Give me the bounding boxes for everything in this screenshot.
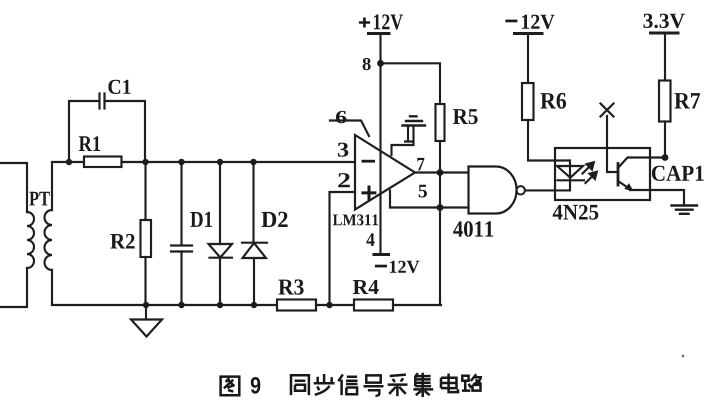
junction node 8 on +12V stem: [377, 60, 384, 67]
junction node pin7 output: [437, 169, 444, 176]
power label -12V right digits: [522, 15, 555, 30]
resistor R6: [522, 83, 534, 120]
transistor base bar: [617, 164, 620, 186]
balance symbol bars: [403, 116, 426, 125]
wire secondary bottom to ground rail: [52, 270, 277, 305]
power label 3.3V: [644, 14, 685, 29]
optocoupler 4N25 box: [555, 148, 650, 200]
pin number 8: [363, 58, 371, 70]
scan artifact dot: [682, 355, 685, 358]
caption char cai: [388, 375, 408, 397]
resistor R5: [436, 104, 445, 141]
caption char tong: [291, 375, 309, 395]
wire R5 bottom to output node and down to R4: [439, 141, 441, 305]
caption char bu: [314, 374, 335, 395]
label 4N25: [553, 205, 599, 220]
wire base stem from X to transistor base: [607, 116, 618, 172]
nand gate output bubble: [517, 186, 525, 194]
transistor emitter line: [618, 181, 631, 190]
resistor R4: [354, 300, 393, 311]
optocoupler LED emission arrow 1: [583, 162, 594, 173]
diode D2 cathode bar: [242, 242, 267, 244]
junction node C1 right / R2 top: [142, 159, 148, 165]
junction node C1 left on rail: [66, 159, 72, 165]
power label -12V pin4 minus sign: [375, 265, 387, 268]
resistor R7: [659, 81, 671, 122]
resistor R1: [84, 157, 122, 168]
transformer PT primary winding: [27, 212, 34, 268]
label C1: [108, 80, 130, 94]
optocoupler LED emission arrow 2: [586, 172, 597, 183]
junction node ground rail at D2: [251, 302, 257, 308]
diode D2 top lead: [252, 162, 254, 243]
pin6 stub wire: [330, 121, 369, 137]
wire 3.3V stem to R7: [664, 35, 666, 81]
ground (signal) stub: [145, 305, 147, 320]
wire emitter to ground: [630, 190, 684, 205]
earth ground bars: [672, 206, 698, 214]
pin number 2: [338, 173, 350, 187]
wire R6 bottom into optocoupler LED anode: [528, 120, 570, 166]
pin number 6: [336, 111, 346, 123]
caption char hao: [364, 375, 384, 395]
caption char tu (figure): [221, 377, 240, 396]
power label +12V plus sign: [359, 18, 370, 28]
label CAP1: [652, 166, 704, 181]
transformer PT secondary winding: [45, 210, 52, 270]
wire gate output to optocoupler LED cathode: [525, 189, 570, 191]
power +12V bar: [369, 32, 390, 35]
label 4011: [453, 221, 493, 237]
base no-connect X mark: [601, 104, 614, 117]
optocoupler LED axis lead: [569, 166, 571, 190]
diode D2 triangle: [243, 243, 267, 258]
op-amp minus input sign: [362, 160, 376, 163]
power label +12V digits: [374, 14, 403, 29]
pin number 5: [419, 185, 427, 198]
pin number 7: [417, 158, 424, 171]
capacitor C bottom lead: [180, 252, 182, 306]
wire R2 top lead: [144, 162, 146, 220]
power 3.3V bar: [651, 32, 679, 35]
wire -12V stem to R6: [527, 35, 529, 83]
junction node pin5: [437, 204, 444, 211]
caption char dian: [441, 374, 458, 393]
diode D2 bottom lead: [253, 258, 255, 305]
caption figure number 9: [251, 377, 260, 394]
wire R4 right to feedback riser: [393, 304, 441, 306]
power -12V bar (right): [515, 32, 543, 35]
capacitor C top lead: [180, 162, 182, 245]
capacitor C1 plates: [100, 94, 105, 109]
wire R2 bottom lead: [144, 257, 146, 305]
label R5: [453, 109, 478, 124]
caption char ji: [413, 373, 433, 397]
ground (signal) triangle: [131, 320, 162, 337]
capacitor C plates: [171, 246, 192, 252]
wire R7 bottom to collector node CAP1: [664, 122, 666, 158]
label R6: [540, 93, 566, 109]
pin number 3: [338, 143, 348, 157]
caption figure 9 title: [221, 373, 482, 397]
caption char lu: [462, 374, 482, 390]
diode D1 top lead: [219, 162, 221, 244]
junction node D1 top: [217, 159, 223, 165]
optocoupler LED triangle: [557, 166, 583, 178]
wire top rail R1 to comparator pin 3: [122, 161, 356, 163]
resistor R3: [277, 300, 316, 311]
label R2: [110, 234, 134, 249]
capacitor C1 left lead: [69, 101, 98, 162]
junction node ground rail at D1: [217, 302, 223, 308]
wire pin5 to gate input B: [390, 191, 469, 208]
transistor emitter arrowhead: [624, 183, 633, 191]
junction node filter cap top: [178, 159, 184, 165]
label PT: [29, 192, 50, 206]
caption char xin: [338, 374, 357, 395]
balance symbol stem on triangle top edge: [392, 126, 414, 155]
label LM311: [333, 214, 378, 225]
junction node D2 top: [250, 159, 256, 165]
pin number 4: [366, 233, 374, 246]
label R3: [278, 279, 303, 294]
label R4: [353, 280, 379, 294]
op-amp plus input sign: [362, 186, 377, 201]
junction node ground rail at R2: [143, 302, 149, 308]
junction node ground rail at cap: [178, 302, 184, 308]
resistor R2: [141, 220, 152, 257]
power label -12V right minus sign: [505, 20, 517, 23]
wire primary return bottom: [0, 268, 27, 307]
junction node R3 R4 pin2: [326, 302, 332, 308]
wire R3 to junction: [316, 304, 354, 306]
capacitor C1 right lead: [107, 101, 146, 162]
nand gate 4011 body: [469, 167, 517, 214]
power -12V bar under pin 4: [374, 253, 389, 256]
wire secondary top to rail: [52, 162, 84, 210]
balance symbol small stem with foot: [405, 126, 412, 142]
label R1: [79, 136, 100, 151]
wire pin7 output to gate input A: [415, 171, 469, 173]
optocoupler LED cathode bar: [558, 179, 585, 181]
transistor collector line: [618, 158, 665, 169]
op-amp comparator U1 LM311 triangle: [355, 135, 415, 210]
label D1: [190, 212, 212, 227]
wire primary input top: [0, 163, 27, 212]
wire pin2 feedback riser: [330, 192, 356, 305]
label D2: [261, 212, 287, 227]
wire +12V stem through pin8 to pin4: [379, 35, 381, 254]
diode D1 triangle: [209, 244, 233, 258]
diode D1 cathode bar: [210, 257, 233, 259]
wire node8 to R5 top: [381, 63, 441, 104]
power label -12V pin4 digits: [390, 261, 420, 273]
diode D1 bottom lead: [219, 258, 221, 305]
junction node collector CAP1: [662, 154, 669, 161]
label R7: [674, 93, 700, 108]
